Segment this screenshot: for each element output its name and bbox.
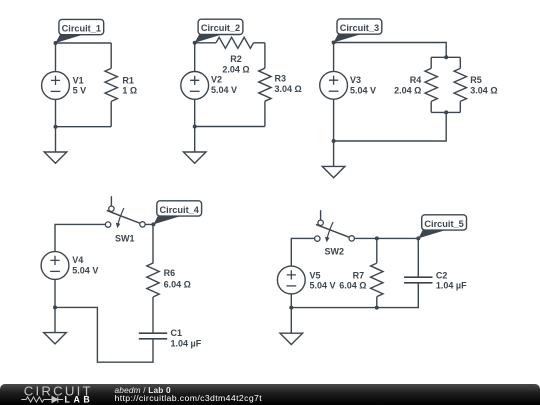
wire c5 C2 top stub	[417, 238, 419, 277]
wire c4 switch out wire	[145, 224, 153, 263]
svg-text:C1: C1	[171, 328, 183, 338]
svg-text:R3: R3	[275, 74, 287, 84]
voltage source V2	[181, 72, 209, 100]
svg-text:R2: R2	[230, 54, 242, 64]
wire c3 R5 stub bot	[459, 101, 461, 112]
wire c3 branch top	[431, 56, 460, 58]
svg-text:1 Ω: 1 Ω	[122, 85, 137, 95]
svg-text:R5: R5	[470, 75, 482, 85]
wire c5 ground stem	[290, 308, 292, 334]
ground c5	[280, 333, 303, 344]
wire c4 bottom loop	[55, 307, 153, 362]
node c1 top-left	[54, 41, 58, 45]
wire c1 left rail lower	[55, 99, 57, 126]
svg-text:5 V: 5 V	[73, 85, 87, 95]
node c3 branch top	[444, 55, 448, 59]
label callout Circuit_1	[56, 19, 104, 43]
wire c2 bottom rail	[195, 126, 265, 128]
CircuitLab logo	[0, 384, 110, 405]
wire c3 top rail	[334, 43, 447, 58]
wire c3 R4 stub top	[430, 57, 432, 68]
svg-text:SW2: SW2	[325, 247, 345, 257]
svg-text:V3: V3	[350, 75, 361, 85]
svg-text:5.04 V: 5.04 V	[350, 85, 376, 95]
resistor R6	[147, 263, 159, 297]
svg-text:2.04 Ω: 2.04 Ω	[222, 64, 249, 74]
wire c5 V5 top wire	[291, 238, 314, 266]
resistor R3	[259, 68, 271, 101]
wire c4 R6-C1 wire	[152, 297, 154, 333]
wire c3 R5 stub top	[459, 57, 461, 68]
ground c2	[183, 152, 206, 163]
switch SW1	[105, 196, 145, 228]
resistor R7	[371, 263, 383, 297]
svg-text:6.04 Ω: 6.04 Ω	[339, 280, 366, 290]
wire c2 right rail upper	[264, 43, 266, 68]
voltage source V5	[277, 266, 305, 294]
node c2 top-left	[193, 41, 197, 45]
voltage source V4	[41, 252, 69, 280]
node c3 branch bottom	[444, 110, 448, 114]
resistor R2	[216, 37, 254, 48]
svg-text:3.04 Ω: 3.04 Ω	[275, 84, 302, 94]
svg-text:V5: V5	[310, 271, 321, 281]
svg-text:5.04 V: 5.04 V	[72, 266, 98, 276]
node c5 R7 top	[375, 236, 379, 240]
svg-text:1.04 µF: 1.04 µF	[171, 338, 202, 348]
wire c1 right rail lower	[110, 101, 112, 126]
svg-text:Circuit_3: Circuit_3	[340, 23, 379, 33]
label callout Circuit_3	[334, 19, 382, 43]
svg-text:V2: V2	[211, 74, 222, 84]
wire c3 branch bottom	[431, 111, 460, 113]
resistor R1	[105, 68, 117, 101]
node c5 label junction	[416, 236, 420, 240]
wire c2 ground stem	[194, 127, 196, 153]
resistor R4	[425, 68, 437, 101]
wire c3 left rail lower	[333, 99, 335, 141]
node c1 bottom-left	[54, 125, 58, 129]
wire c5 switch out wire	[354, 237, 418, 239]
wire c4 ground stem	[54, 307, 56, 332]
svg-text:6.04 Ω: 6.04 Ω	[164, 279, 191, 289]
label callout Circuit_2	[195, 19, 243, 43]
svg-text:R7: R7	[353, 271, 365, 281]
wire c3 left rail upper	[333, 43, 335, 72]
svg-text:V1: V1	[73, 75, 84, 85]
wire c2 left rail upper	[194, 43, 196, 72]
svg-text:R4: R4	[410, 75, 422, 85]
node c4 switch-label junction	[151, 222, 155, 226]
wire c3 ground stem	[333, 141, 335, 166]
label callout Circuit_5	[418, 215, 466, 239]
wire c2 right rail lower	[264, 101, 266, 126]
node c5 R7 bottom	[375, 306, 379, 310]
svg-text:Circuit_1: Circuit_1	[62, 23, 101, 33]
capacitor C2	[404, 277, 432, 283]
node c3 top-left	[332, 41, 336, 45]
svg-text:5.04 V: 5.04 V	[310, 280, 336, 290]
wire c2 left rail lower	[194, 99, 196, 126]
node c4 V4 bottom	[53, 305, 57, 309]
svg-text:Circuit_2: Circuit_2	[201, 23, 240, 33]
svg-text:5.04 V: 5.04 V	[211, 85, 237, 95]
node c2 bottom-left	[193, 125, 197, 129]
resistor R5	[454, 68, 466, 101]
svg-text:Circuit_4: Circuit_4	[160, 205, 200, 215]
wire c1 right rail upper	[110, 43, 112, 68]
wire c5 C2 bottom stub	[291, 283, 418, 308]
wire c3 R4 stub bot	[430, 101, 432, 112]
ground c1	[44, 152, 67, 163]
wire c5 R7 top stub	[376, 238, 378, 263]
ground c4	[44, 333, 67, 344]
svg-text:LAB: LAB	[65, 394, 91, 404]
label callout Circuit_4	[153, 201, 201, 225]
wire c1 bottom rail	[56, 126, 112, 128]
svg-text:Circuit_5: Circuit_5	[424, 219, 463, 229]
voltage source V3	[320, 71, 348, 99]
wire c1 left rail upper	[55, 43, 57, 72]
wire c3 mid drop	[334, 112, 447, 141]
svg-text:R1: R1	[122, 75, 134, 85]
svg-text:CIRCUIT: CIRCUIT	[24, 384, 92, 398]
wire c4 V4 top wire	[55, 224, 105, 251]
svg-text:3.04 Ω: 3.04 Ω	[470, 85, 497, 95]
wire c5 R7 bottom stub	[376, 297, 378, 308]
voltage source V1	[42, 72, 70, 100]
wire c1 ground stem	[55, 127, 57, 152]
switch SW2	[315, 210, 355, 242]
wire c2 top rail left	[195, 42, 216, 44]
svg-text:C2: C2	[436, 271, 448, 281]
ground c3	[322, 166, 345, 177]
svg-text:R6: R6	[164, 268, 176, 278]
wire c2 top rail right	[254, 42, 265, 44]
node c3 bottom-left	[332, 139, 336, 143]
svg-text:V4: V4	[72, 255, 83, 265]
svg-text:SW1: SW1	[115, 234, 135, 244]
wire c1 top rail	[56, 42, 112, 44]
footer bar	[0, 384, 540, 405]
wire c5 V5 bottom stub	[290, 294, 292, 308]
svg-text:2.04 Ω: 2.04 Ω	[394, 85, 421, 95]
node c5 V5 bottom	[289, 306, 293, 310]
capacitor C1	[139, 333, 167, 339]
svg-text:1.04 µF: 1.04 µF	[436, 280, 467, 290]
wire c4 V4 bottom stub	[54, 279, 56, 307]
